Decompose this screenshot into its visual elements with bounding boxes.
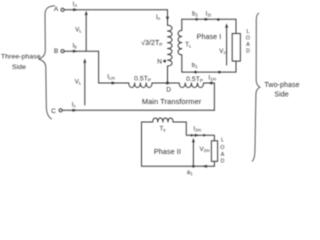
svg-text:I1m: I1m [208,75,216,81]
svg-text:Three-phase: Three-phase [1,54,41,61]
main winding left half 0.5Tp [129,83,152,88]
Phase I bottom wire [182,71,236,73]
main winding right half 0.5Tp [179,83,203,88]
svg-text:Two-phase: Two-phase [264,82,299,89]
svg-text:ILm: ILm [107,74,115,80]
svg-text:Side: Side [274,91,288,98]
svg-text:0.5TP: 0.5TP [186,76,203,83]
svg-text:D: D [166,87,171,94]
node b1 [194,71,197,74]
right brace (two-phase side) [252,13,260,161]
voltage arrow V2t [226,26,228,65]
Phase II top wire jog [173,122,214,141]
svg-text:C: C [51,108,56,115]
teaser lead from A [167,10,169,26]
teaser lead to D [167,66,169,83]
load box phase II [211,141,217,162]
svg-text:VL: VL [75,28,82,34]
svg-text:V2m: V2m [200,147,211,153]
voltage arrow V2m [192,141,194,166]
junction dot on bottom wire [218,71,221,74]
svg-text:Phase I: Phase I [197,33,222,41]
svg-text:In: In [156,15,161,21]
wire B down to main winding [99,51,129,83]
svg-text:D: D [221,158,225,164]
svg-text:0.5TP: 0.5TP [134,75,151,82]
node on mid wire [190,134,192,136]
svg-text:N: N [157,59,162,66]
junction dot on top wire [217,18,220,21]
svg-text:√3/2TP: √3/2TP [141,39,163,47]
svg-text:b1: b1 [192,63,198,69]
wire phase B [64,50,98,52]
node N (tap) [163,60,166,63]
left brace (three-phase side) [39,6,55,119]
Phase II secondary winding Ts [153,118,173,122]
load bottom lead [213,161,215,166]
svg-text:TL: TL [185,43,192,49]
svg-text:I2m: I2m [193,126,201,132]
Phase I loop top wire [182,18,236,20]
svg-text:O: O [246,35,250,41]
svg-text:L: L [247,29,250,35]
svg-text:A: A [54,6,59,13]
Phase I right side wire [235,19,237,33]
wire phase A [64,9,167,11]
svg-text:Main Transformer: Main Transformer [142,97,202,106]
svg-text:Ts: Ts [160,126,166,132]
svg-text:Phase II: Phase II [154,147,181,156]
svg-text:b2: b2 [192,11,198,17]
wire to D [152,82,179,84]
node D [166,82,169,85]
svg-text:A: A [246,42,250,48]
teaser winding sqrt3/2 Tp [168,25,173,66]
svg-text:Ic: Ic [72,103,76,109]
node a1 [192,165,195,168]
svg-text:I2t: I2t [206,11,212,17]
load box phase I [232,34,240,62]
junction dot on mid wire [203,134,205,136]
svg-text:B: B [54,48,59,55]
svg-text:D: D [246,48,250,54]
Phase II loop left and bottom [142,122,215,166]
svg-text:a1: a1 [187,170,193,176]
voltage arrow VL (A-B) [85,13,87,51]
svg-text:L: L [221,138,224,144]
voltage arrow VL (B-C) [84,61,86,105]
svg-text:A: A [221,152,225,158]
Phase I secondary winding TL [178,19,182,72]
svg-text:V2t: V2t [219,48,228,55]
wire phase C (bottom rail) [62,109,214,111]
return arrow on bottom wire [202,165,207,168]
svg-text:O: O [220,145,224,151]
svg-text:VL: VL [75,80,82,86]
wire right end of main winding down to C rail [204,83,215,110]
node b2 [195,18,198,21]
svg-text:Ib: Ib [73,44,78,50]
svg-text:Side: Side [12,64,26,71]
svg-text:IA: IA [73,2,78,8]
